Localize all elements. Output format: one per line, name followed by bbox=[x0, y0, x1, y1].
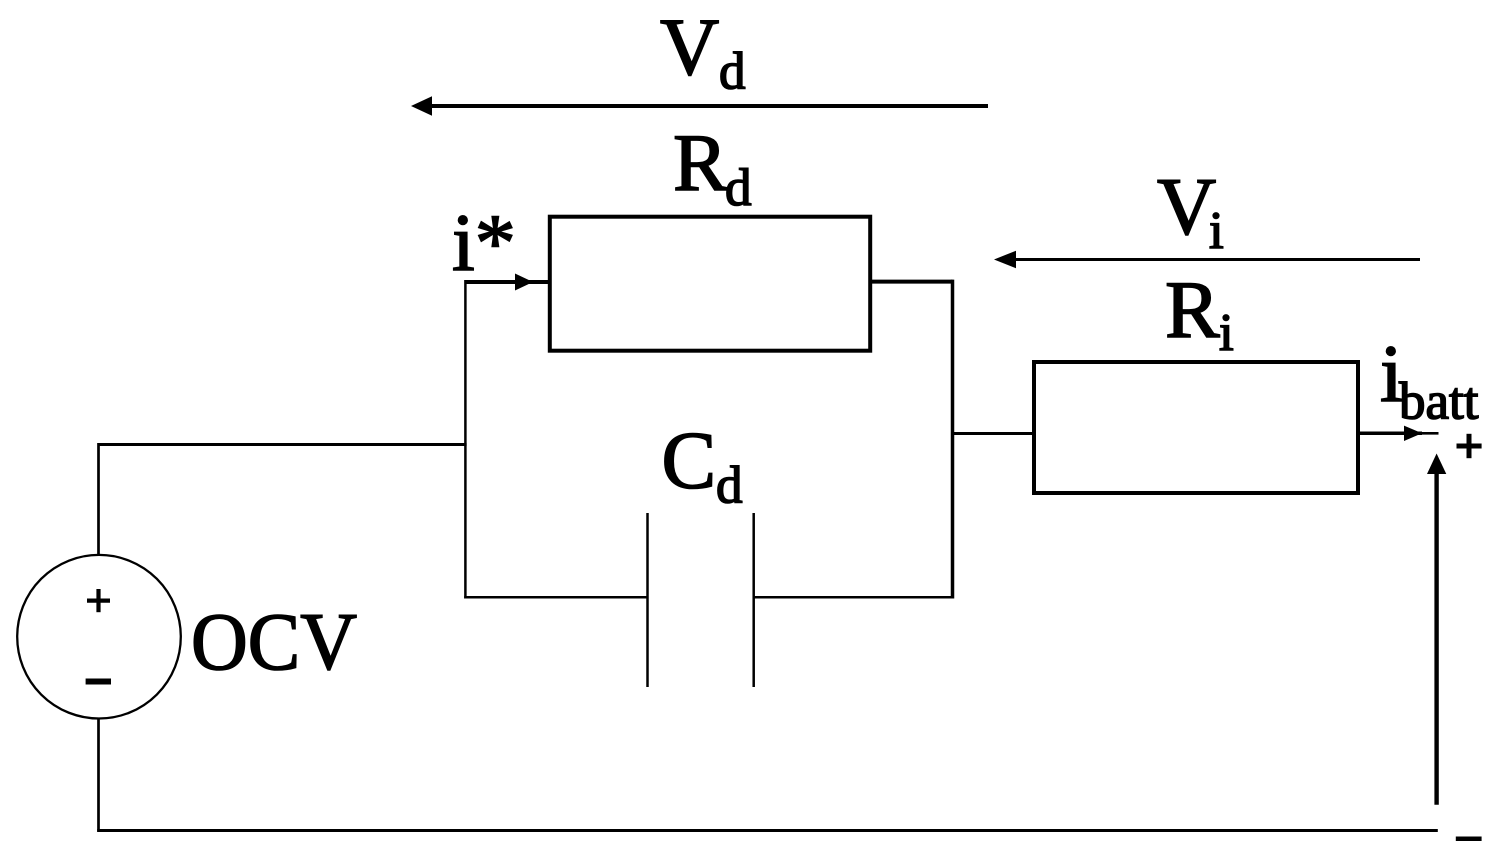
wire left vertical of RC pair bbox=[464, 280, 467, 599]
plus terminal bbox=[1457, 434, 1482, 458]
resistor R_i bbox=[1034, 362, 1358, 493]
wire OCV bottom lead bbox=[97, 718, 100, 832]
label V_d bbox=[660, 1, 746, 100]
svg-text:R: R bbox=[1165, 264, 1220, 355]
svg-text:C: C bbox=[662, 415, 717, 506]
svg-text:d: d bbox=[719, 42, 746, 100]
svg-text:batt: batt bbox=[1399, 373, 1479, 431]
resistor R_d bbox=[550, 217, 870, 351]
svg-text:V: V bbox=[1157, 161, 1216, 252]
label OCV bbox=[191, 596, 357, 687]
svg-text:i: i bbox=[1209, 202, 1224, 260]
label i* bbox=[452, 197, 516, 288]
wire V_d arrow line bbox=[411, 96, 988, 116]
wire top branch right of R_d bbox=[870, 280, 952, 284]
wire middle to R_i bbox=[953, 432, 1035, 435]
label V_i bbox=[1157, 161, 1224, 260]
label C_d bbox=[662, 415, 743, 515]
voltage source OCV circle bbox=[17, 555, 181, 719]
wire from OCV to RC pair bbox=[99, 443, 467, 446]
capacitor C_d plates bbox=[648, 513, 754, 687]
wire bottom branch left of capacitor bbox=[464, 596, 647, 599]
svg-text:i: i bbox=[1219, 304, 1234, 362]
svg-text:d: d bbox=[725, 159, 752, 217]
wire V_i arrow line bbox=[994, 251, 1420, 269]
plus sign in source bbox=[87, 589, 110, 612]
wire bottom branch right of capacitor bbox=[754, 596, 954, 599]
wire bottom return bbox=[97, 829, 1438, 832]
minus sign in source bbox=[86, 679, 111, 685]
svg-text:OCV: OCV bbox=[191, 596, 357, 687]
wire i* branch with arrow bbox=[465, 274, 549, 291]
svg-text:d: d bbox=[716, 457, 743, 515]
arrow up battery voltage bbox=[1427, 454, 1446, 805]
minus terminal bbox=[1456, 837, 1482, 842]
label R_d bbox=[673, 117, 752, 217]
label R_i bbox=[1165, 264, 1234, 362]
wire right vertical of RC pair bbox=[951, 280, 955, 599]
label i_batt bbox=[1380, 328, 1479, 431]
svg-text:i*: i* bbox=[452, 197, 516, 288]
svg-text:V: V bbox=[660, 1, 719, 92]
svg-text:R: R bbox=[673, 117, 728, 208]
wire i_batt arrow bbox=[1358, 426, 1439, 441]
wire OCV top lead bbox=[97, 443, 100, 555]
